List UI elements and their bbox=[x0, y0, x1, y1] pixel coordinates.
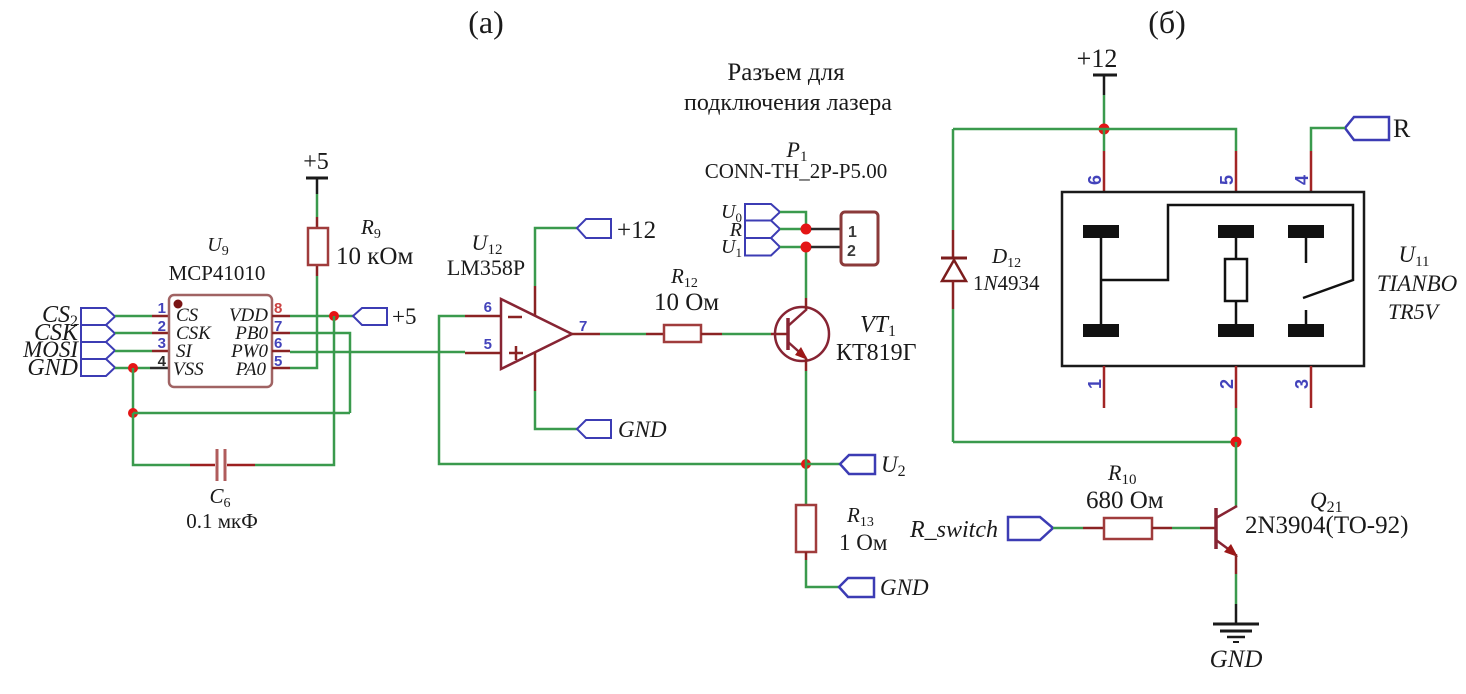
net flag U2 bbox=[840, 452, 906, 480]
svg-text:5: 5 bbox=[1217, 175, 1237, 185]
wire pin6 PW0 to op-amp bbox=[272, 351, 465, 352]
wire collector VT1 up bbox=[805, 251, 808, 309]
wire C6 right to VDD bbox=[227, 316, 334, 465]
svg-text:5: 5 bbox=[484, 336, 492, 353]
svg-text:4: 4 bbox=[158, 353, 167, 370]
svg-text:10 кОм: 10 кОм bbox=[336, 243, 413, 270]
relay pin 3 stub bbox=[1310, 366, 1313, 408]
wire U0 to node bbox=[780, 212, 806, 229]
wire +12 to pin5 bbox=[1104, 129, 1236, 151]
svg-text:6: 6 bbox=[274, 335, 282, 352]
relay pin 5 stub bbox=[1235, 151, 1238, 193]
svg-text:CONN-TH_2P-P5.00: CONN-TH_2P-P5.00 bbox=[705, 159, 888, 183]
relay pin 6 stub bbox=[1103, 151, 1106, 193]
wire to U2 flag bbox=[806, 463, 840, 466]
ground bbox=[1213, 624, 1259, 642]
svg-text:LM358P: LM358P bbox=[447, 255, 525, 280]
wire R13 to GND flag bbox=[806, 560, 839, 587]
svg-text:(б): (б) bbox=[1148, 4, 1186, 40]
svg-text:TIANBO: TIANBO bbox=[1377, 271, 1458, 296]
wire pin7 PB0 down bbox=[272, 333, 350, 413]
svg-text:4: 4 bbox=[1292, 175, 1312, 185]
wire VSS net vertical bbox=[132, 368, 135, 413]
power +12 symbol bbox=[1077, 44, 1118, 129]
svg-text:R_switch: R_switch bbox=[909, 517, 998, 543]
net flag U0 bbox=[721, 201, 780, 225]
svg-text:3: 3 bbox=[1292, 379, 1312, 389]
net flag GND left bbox=[27, 355, 115, 381]
op-amp V+ wire to +12 flag bbox=[535, 228, 577, 315]
wire feedback U2 to pin6 bbox=[439, 316, 806, 464]
capacitor C6 bbox=[217, 449, 225, 481]
connector P1 bbox=[841, 212, 878, 265]
relay pin 1 stub bbox=[1103, 366, 1106, 408]
transistor Q21 bbox=[1216, 506, 1238, 557]
svg-text:1: 1 bbox=[848, 224, 857, 241]
svg-text:1 Ом: 1 Ом bbox=[839, 530, 888, 555]
resistor R13 bbox=[796, 464, 816, 560]
svg-text:2: 2 bbox=[847, 243, 856, 260]
wire +12 to diode bbox=[953, 128, 1104, 131]
net flag R bbox=[729, 219, 780, 241]
net flag U1 bbox=[721, 236, 780, 260]
wire pin2 CSK bbox=[115, 332, 169, 335]
power +5 symbol bbox=[303, 149, 329, 217]
pin 6 stub bbox=[465, 315, 501, 318]
junction node VSS-C6 bbox=[128, 408, 138, 418]
svg-text:6: 6 bbox=[1085, 175, 1105, 185]
svg-text:6: 6 bbox=[484, 299, 492, 316]
wire pin2 down bbox=[1235, 408, 1238, 442]
op-amp U12 bbox=[501, 299, 572, 369]
net flag R_switch bbox=[909, 517, 1053, 543]
relay pin 2 stub bbox=[1235, 366, 1238, 408]
svg-text:+5: +5 bbox=[303, 149, 329, 175]
wire pin5 PA0 to R9 bbox=[272, 276, 317, 368]
wire R_switch to R10 bbox=[1053, 527, 1104, 530]
wire C6 left bbox=[133, 413, 215, 465]
junction node VDD bbox=[329, 311, 339, 321]
svg-text:7: 7 bbox=[579, 318, 587, 335]
svg-text:TR5V: TR5V bbox=[1388, 299, 1441, 324]
svg-text:1N4934: 1N4934 bbox=[973, 271, 1040, 295]
transistor VT1 bbox=[775, 307, 829, 361]
svg-text:680 Ом: 680 Ом bbox=[1086, 487, 1164, 514]
wire pin8 VDD to +5 flag bbox=[272, 315, 353, 318]
wire R to node bbox=[780, 228, 806, 231]
wire emitter VT1 down bbox=[805, 358, 808, 464]
op-amp V- wire to GND flag bbox=[535, 352, 577, 429]
IC U9 MCP41010 body bbox=[169, 295, 272, 387]
wire pin1 CS bbox=[115, 315, 169, 318]
junction node pin1 P1 bbox=[801, 224, 812, 235]
svg-text:1: 1 bbox=[1085, 379, 1105, 389]
svg-text:2: 2 bbox=[1217, 379, 1237, 389]
svg-text:GND: GND bbox=[27, 355, 78, 381]
junction node U2 bbox=[801, 459, 811, 469]
relay U11 body bbox=[1062, 192, 1364, 366]
svg-text:8: 8 bbox=[274, 300, 282, 317]
resistor R10 bbox=[1104, 518, 1216, 539]
net flag CSK bbox=[34, 320, 115, 346]
junction node collector bbox=[1231, 437, 1242, 448]
wire node to P1 pin2 bbox=[811, 246, 841, 249]
pin 5 stub bbox=[465, 352, 501, 355]
wire emitter Q21 to ground bbox=[1235, 554, 1238, 624]
svg-text:MCP41010: MCP41010 bbox=[169, 261, 266, 285]
svg-text:1: 1 bbox=[158, 300, 166, 317]
wire node to Q21 collector bbox=[1235, 442, 1238, 507]
wire U1 to node bbox=[780, 246, 806, 249]
junction node pin2 P1 bbox=[801, 242, 812, 253]
svg-text:2N3904(TO-92): 2N3904(TO-92) bbox=[1245, 512, 1408, 539]
svg-text:GND: GND bbox=[880, 575, 929, 600]
svg-text:КТ819Г: КТ819Г bbox=[836, 340, 917, 366]
wire pin3 SI bbox=[115, 350, 169, 353]
resistor R9 bbox=[308, 217, 328, 276]
junction node +12 bbox=[1099, 124, 1110, 135]
svg-text:+12: +12 bbox=[1077, 44, 1118, 73]
wire VSS to PB0 bbox=[133, 412, 350, 415]
net flag MOSI bbox=[22, 337, 115, 362]
svg-text:GND: GND bbox=[1210, 646, 1263, 673]
wire pin4 VSS bbox=[115, 367, 169, 370]
svg-text:Разъем для: Разъем для bbox=[727, 59, 845, 86]
svg-text:PA0: PA0 bbox=[235, 359, 267, 380]
net flag +12 bbox=[577, 217, 656, 244]
svg-text:(а): (а) bbox=[468, 4, 504, 40]
wire R flag to pin4 bbox=[1311, 128, 1345, 151]
svg-text:3: 3 bbox=[158, 335, 166, 352]
resistor R12 bbox=[646, 325, 722, 342]
junction node VSS bbox=[128, 363, 138, 373]
net flag CS2 bbox=[42, 302, 115, 330]
wire +12 to pin6 bbox=[1103, 129, 1106, 151]
net flag R relay bbox=[1345, 114, 1411, 143]
relay pin 4 stub bbox=[1310, 151, 1313, 193]
wire R12 to VT1 base bbox=[722, 333, 788, 336]
svg-text:подключения лазера: подключения лазера bbox=[684, 90, 892, 116]
pin 7 output stub bbox=[572, 333, 646, 336]
svg-text:+5: +5 bbox=[392, 304, 416, 329]
svg-text:R: R bbox=[1393, 114, 1411, 143]
svg-text:10 Ом: 10 Ом bbox=[654, 289, 719, 316]
svg-text:0.1 мкФ: 0.1 мкФ bbox=[186, 509, 258, 533]
wire diode bottom bbox=[953, 441, 1236, 444]
wire node to P1 pin1 bbox=[811, 228, 841, 231]
svg-text:+12: +12 bbox=[617, 217, 656, 244]
net flag +5 bbox=[353, 304, 416, 329]
net flag GND bottom bbox=[839, 575, 929, 600]
svg-text:2: 2 bbox=[158, 318, 166, 335]
svg-text:GND: GND bbox=[618, 417, 667, 442]
diode D12 bbox=[941, 129, 967, 442]
net flag GND opamp bbox=[577, 417, 667, 442]
svg-text:VSS: VSS bbox=[173, 359, 204, 380]
